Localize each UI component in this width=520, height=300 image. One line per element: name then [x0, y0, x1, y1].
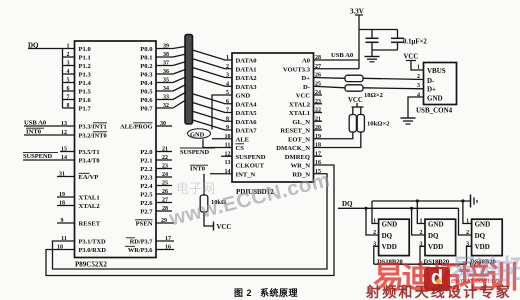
sensor U4 DS18B20 body: [425, 219, 456, 255]
wire D- line: [314, 86, 424, 89]
label 18ohm x2: [364, 92, 384, 99]
svg-text:VBUS: VBUS: [427, 67, 446, 75]
svg-text:P0.0: P0.0: [140, 46, 153, 53]
wire U4 pin3 to VDD rail: [420, 246, 425, 264]
svg-text:25: 25: [162, 181, 168, 187]
svg-text:XTAL2: XTAL2: [79, 203, 101, 210]
svg-text:4: 4: [67, 69, 70, 75]
svg-text:18Ω×2: 18Ω×2: [364, 92, 384, 99]
sensor U3 pin texts: [382, 220, 398, 251]
svg-text:P2.0: P2.0: [140, 149, 153, 156]
svg-text:RESET_N: RESET_N: [280, 128, 310, 135]
U1 pin 17 stub RD: [156, 236, 174, 242]
svg-text:USB_CON4: USB_CON4: [416, 107, 453, 115]
svg-text:P1.5: P1.5: [79, 89, 92, 96]
svg-text:USB A0: USB A0: [331, 52, 354, 59]
U2 pin texts left column: [236, 58, 266, 179]
U2 pin numbers 1-14: [225, 55, 231, 175]
svg-text:22: 22: [162, 155, 168, 161]
svg-text:DATA5: DATA5: [236, 110, 258, 117]
bus bar P0-DATA: [185, 35, 193, 125]
svg-text:P2.3: P2.3: [140, 175, 153, 182]
svg-text:26: 26: [162, 189, 168, 195]
svg-text:37: 37: [163, 61, 169, 67]
resistor R3 label 10k: [211, 199, 226, 206]
wire R5 to DMACK_N: [314, 132, 361, 148]
svg-text:3: 3: [420, 241, 423, 247]
watermark red big text: [373, 252, 516, 297]
wire D+ line: [314, 78, 424, 80]
svg-text:P2.6: P2.6: [140, 200, 153, 207]
svg-text:DATA1: DATA1: [236, 66, 257, 73]
svg-text:P1.2: P1.2: [79, 63, 92, 70]
svg-text:36: 36: [163, 69, 169, 75]
svg-text:4: 4: [226, 81, 229, 87]
U1 pin texts left column: [79, 123, 108, 254]
svg-text:38: 38: [163, 52, 169, 58]
U2 pin numbers 28-15: [315, 55, 321, 175]
svg-text:P89C52X2: P89C52X2: [75, 261, 107, 269]
svg-text:17: 17: [165, 236, 171, 242]
U1 pin 15 stub: [60, 146, 75, 152]
wire U5 pin3 to VDD rail: [467, 246, 472, 264]
svg-text:31: 31: [59, 171, 65, 177]
svg-text:DQ: DQ: [475, 232, 486, 240]
sensor U4 label DS18B20: [424, 258, 450, 265]
wire U2 GND pin5: [212, 95, 232, 130]
capacitor C2 0.1uF: [391, 30, 404, 51]
net label SUSPEND left: [23, 152, 75, 160]
U2 stub XTAL2: [314, 103, 323, 105]
wire VCC to VBUS pin1: [411, 61, 424, 71]
svg-text:P0.6: P0.6: [140, 97, 153, 104]
svg-text:SUSPEND: SUSPEND: [236, 154, 266, 161]
svg-text:VDD: VDD: [428, 243, 443, 251]
svg-text:D-: D-: [427, 77, 435, 85]
svg-text:1: 1: [420, 219, 423, 225]
wire P1 common DQ bus vertical: [62, 49, 64, 109]
watermark blue echo text: [451, 248, 520, 287]
svg-text:P0.5: P0.5: [140, 89, 153, 96]
svg-text:32: 32: [163, 103, 169, 109]
svg-text:P1.0: P1.0: [79, 46, 92, 53]
resistor R1 18ohm body: [345, 75, 363, 81]
svg-text:P1.7: P1.7: [79, 106, 92, 113]
svg-text:INT0: INT0: [190, 166, 206, 173]
label 0.1uF x2: [403, 39, 427, 46]
wire VCC to R4: [352, 107, 354, 115]
svg-text:INT0: INT0: [26, 128, 42, 135]
node GND oval: [188, 129, 211, 139]
svg-text:1: 1: [226, 55, 229, 61]
svg-text:2: 2: [226, 64, 229, 70]
wire INT pull-up: [203, 174, 205, 195]
wire VDD rail: [374, 263, 467, 266]
wire CS pin11 to GND: [203, 139, 232, 147]
svg-text:23: 23: [162, 164, 168, 170]
watermark faint chinese: [176, 178, 215, 197]
svg-text:XTAL1: XTAL1: [289, 110, 310, 117]
sensor U3 DS18B20 body: [379, 219, 410, 255]
svg-text:30: 30: [160, 121, 166, 127]
watermark logo d: [424, 267, 450, 291]
svg-text:VDD: VDD: [382, 243, 397, 251]
wire cap top rail: [359, 29, 398, 31]
svg-text:1: 1: [417, 65, 420, 71]
wire R3 to VCC: [204, 212, 214, 226]
svg-text:8: 8: [226, 116, 229, 122]
U1 pin 31 stub EA: [57, 171, 75, 177]
power VCC tick mid: [214, 222, 232, 232]
svg-text:3.3V: 3.3V: [350, 8, 364, 16]
net label DQ left: [28, 42, 75, 50]
U1 pins 1-8 stubs: [63, 44, 75, 110]
svg-text:DMACK_N: DMACK_N: [276, 145, 310, 152]
svg-text:3: 3: [226, 73, 229, 79]
wire GND rail to U5 pin1: [461, 199, 471, 223]
sensor U5 label DS18B20: [470, 258, 496, 265]
svg-text:5: 5: [67, 78, 70, 84]
svg-text:P1.6: P1.6: [79, 97, 92, 104]
svg-text:P3.5/T1: P3.5/T1: [79, 149, 100, 156]
svg-text:33: 33: [163, 95, 169, 101]
svg-text:8: 8: [67, 103, 70, 109]
J1 pin numbers: [417, 74, 420, 98]
U1 pin texts right column: [120, 46, 153, 254]
svg-text:VCC: VCC: [217, 224, 232, 231]
net label INT0 mid: [190, 165, 232, 174]
wire cap bottom rail: [372, 49, 398, 51]
svg-text:DATA3: DATA3: [236, 84, 258, 91]
svg-text:DQ: DQ: [428, 232, 439, 240]
svg-text:XTAL1: XTAL1: [79, 195, 100, 202]
U2 pin texts right column: [276, 58, 310, 179]
svg-text:11: 11: [61, 236, 67, 242]
svg-text:CS: CS: [236, 145, 245, 152]
svg-text:P0.4: P0.4: [140, 80, 153, 87]
svg-text:P0.2: P0.2: [140, 63, 153, 70]
ground sideways sensors: [471, 195, 478, 208]
power VCC for VBUS: [404, 54, 419, 61]
IC U2 PDIUSBD12 body: [232, 53, 314, 182]
svg-text:EOT_N: EOT_N: [288, 136, 310, 143]
svg-text:9: 9: [226, 125, 229, 131]
svg-text:35: 35: [163, 78, 169, 84]
svg-text:P1.1: P1.1: [79, 55, 91, 62]
svg-text:SUSPEND: SUSPEND: [180, 149, 210, 156]
svg-text:2: 2: [417, 74, 420, 80]
svg-text:3: 3: [67, 61, 70, 67]
J1 pin texts: [427, 67, 446, 102]
svg-text:RESET: RESET: [79, 221, 101, 228]
svg-text:DATA4: DATA4: [236, 101, 258, 108]
svg-text:P2.4: P2.4: [140, 183, 153, 190]
svg-text:GND: GND: [427, 94, 443, 102]
wire GND to ALE pin10: [212, 138, 232, 140]
svg-text:WR/P3.6: WR/P3.6: [128, 247, 153, 254]
U1 pin 19 stub XTAL1: [57, 192, 75, 198]
wire DQ rail to U4 pin2: [410, 207, 425, 235]
U2 stub DMREQ: [314, 155, 323, 157]
connector J1 USB_CON4 body: [424, 63, 457, 105]
svg-text:P3.3/INT1: P3.3/INT1: [79, 124, 107, 131]
bus fan-in wires from P0: [173, 47, 185, 109]
power VCC pullups: [348, 97, 364, 107]
svg-text:10kΩ×2: 10kΩ×2: [367, 121, 390, 128]
sensor U4 pin numbers: [420, 219, 423, 248]
svg-text:GND: GND: [382, 220, 398, 228]
net label INT0 left: [24, 128, 75, 136]
sensor U5 pin texts: [475, 220, 491, 251]
svg-text:SUSPEND: SUSPEND: [23, 153, 53, 160]
svg-text:21: 21: [162, 147, 168, 153]
U1 pin 16 stub WR: [156, 244, 174, 250]
wire U3 pin3 to VDD rail: [374, 246, 379, 264]
svg-text:9: 9: [61, 218, 64, 224]
sensor U3 label DS18B20: [377, 258, 403, 265]
svg-text:2: 2: [466, 230, 469, 236]
wire GND rail to U3 pin1: [372, 201, 379, 224]
svg-text:29: 29: [161, 218, 167, 224]
svg-text:A0: A0: [302, 58, 311, 65]
svg-text:3: 3: [466, 241, 469, 247]
svg-text:1: 1: [466, 219, 469, 225]
svg-text:P2.7: P2.7: [140, 209, 153, 216]
svg-text:10: 10: [57, 244, 63, 250]
svg-text:P2.1: P2.1: [140, 158, 152, 165]
U1 pins 21-28 stubs P2: [156, 147, 172, 213]
svg-text:13: 13: [61, 121, 67, 127]
ground for J1: [401, 118, 416, 124]
svg-text:0.1µF×2: 0.1µF×2: [403, 39, 427, 46]
U1 pin 18 stub XTAL2: [57, 200, 75, 206]
svg-text:39: 39: [163, 44, 169, 50]
watermark maroon slogan: [366, 282, 512, 300]
wire GND rail sensors: [372, 200, 471, 202]
svg-text:P1.4: P1.4: [79, 80, 92, 87]
wire DQ rail to U5 pin2: [459, 208, 472, 235]
svg-text:PSEN: PSEN: [136, 221, 153, 228]
watermark ECCN diagonal: [167, 152, 396, 231]
sensor U3 pin numbers: [373, 219, 376, 248]
svg-text:2: 2: [67, 52, 70, 58]
IC U1 P89C52X2 body: [75, 41, 157, 258]
svg-text:DQ: DQ: [342, 200, 353, 208]
IC U1 label P89C52X2: [75, 261, 107, 269]
svg-text:2: 2: [420, 230, 423, 236]
resistor R5 10k body: [357, 115, 364, 133]
svg-text:CLKOUT: CLKOUT: [236, 163, 265, 170]
svg-text:GND: GND: [190, 132, 205, 139]
svg-text:VCC: VCC: [404, 54, 419, 61]
svg-text:ALE/PROG: ALE/PROG: [120, 124, 153, 131]
power VCC sensors: [469, 262, 484, 269]
svg-text:27: 27: [162, 198, 168, 204]
svg-text:24: 24: [162, 172, 168, 178]
svg-text:DATA7: DATA7: [236, 128, 258, 135]
svg-text:GL_N: GL_N: [292, 119, 310, 126]
net label DQ right: [338, 200, 459, 208]
svg-text:D+: D+: [427, 85, 436, 93]
wire WR_N wrap to RXD: [46, 165, 334, 276]
svg-text:DATA2: DATA2: [236, 75, 258, 82]
svg-text:DATA6: DATA6: [236, 119, 258, 126]
ground for caps: [365, 50, 380, 62]
svg-text:RD/P3.7: RD/P3.7: [130, 239, 154, 246]
resistor R3 10k body: [200, 195, 208, 212]
wire RD_N wrap to TXD: [53, 174, 328, 269]
wire VCC to R5: [360, 107, 362, 115]
svg-text:16: 16: [165, 244, 171, 250]
svg-text:7: 7: [67, 95, 70, 101]
net label USB A0 left: [24, 120, 75, 127]
svg-text:14: 14: [61, 155, 67, 161]
svg-text:XTAL2: XTAL2: [289, 101, 311, 108]
U1 pin 29 stub PSEN: [156, 218, 174, 224]
U2 stub GL_N: [314, 120, 323, 122]
svg-text:GND: GND: [236, 93, 251, 100]
svg-text:3: 3: [417, 83, 420, 89]
U1 pin 9 stub RESET: [57, 218, 75, 224]
power 3.3V label: [350, 8, 364, 16]
resistor R4 10k body: [349, 115, 356, 133]
svg-text:VOUT3.3: VOUT3.3: [283, 66, 311, 73]
svg-text:ALE: ALE: [236, 136, 250, 143]
svg-text:P3.4/T0: P3.4/T0: [79, 158, 100, 165]
svg-text:WR_N: WR_N: [291, 163, 311, 170]
label 10kohm x2: [367, 121, 390, 128]
watermark url: [451, 276, 499, 285]
resistor R2 18ohm body: [345, 85, 363, 91]
svg-text:19: 19: [59, 192, 65, 198]
svg-text:VCC: VCC: [296, 93, 311, 100]
svg-text:P3.2/INT0: P3.2/INT0: [79, 133, 107, 140]
svg-text:D+: D+: [301, 75, 310, 82]
wire VOUT3.3 stub: [314, 68, 360, 70]
svg-text:P2.5: P2.5: [140, 192, 153, 199]
svg-text:VCC: VCC: [348, 97, 363, 104]
sensor U5 DS18B20 body: [472, 219, 503, 255]
svg-text:P0.7: P0.7: [140, 106, 153, 113]
U1 pin texts P1.0-P1.7: [79, 46, 92, 113]
sensor U4 pin texts: [428, 220, 444, 251]
net label SUSPEND mid: [180, 148, 232, 156]
svg-text:D-: D-: [303, 84, 310, 91]
svg-text:15: 15: [61, 146, 67, 152]
svg-text:3: 3: [373, 241, 376, 247]
wire GND rail to U4 pin1: [416, 199, 425, 223]
svg-text:7: 7: [226, 108, 229, 114]
svg-text:P2.2: P2.2: [140, 166, 153, 173]
svg-text:INT_N: INT_N: [236, 171, 256, 178]
J1 label USB_CON4: [416, 107, 453, 115]
svg-text:P0.3: P0.3: [140, 72, 153, 79]
sensor U5 pin numbers: [466, 219, 469, 248]
svg-text:GND: GND: [428, 220, 444, 228]
caption figure title: [234, 286, 298, 299]
svg-text:DQ: DQ: [382, 232, 393, 240]
wire A0 net: [314, 52, 360, 60]
wire DQ rail to U3 pin2: [364, 207, 378, 235]
svg-text:2: 2: [373, 230, 376, 236]
capacitor C1 0.1uF: [366, 30, 379, 51]
svg-text:6: 6: [226, 99, 229, 105]
svg-text:DATA0: DATA0: [236, 58, 258, 65]
wire 3.3V vertical: [355, 15, 363, 69]
svg-text:12: 12: [61, 130, 67, 136]
IC U2 label PDIUSBD12: [236, 188, 274, 196]
svg-text:1: 1: [373, 219, 376, 225]
svg-text:18: 18: [59, 200, 65, 206]
U1 pin 30 stub ALE: [156, 121, 172, 127]
wire R4 to EOT_N: [314, 132, 353, 139]
svg-text:P1.3: P1.3: [79, 72, 92, 79]
svg-text:P3.1/TXD: P3.1/TXD: [79, 239, 107, 246]
svg-text:P0.1: P0.1: [140, 55, 152, 62]
bus fan-out wires to DATA0-7: [193, 50, 233, 130]
U1 pins 39-32 stubs P0: [156, 44, 173, 110]
svg-text:GND: GND: [475, 220, 491, 228]
U2 stub RESET_N: [314, 129, 323, 131]
svg-text:13: 13: [225, 160, 231, 166]
svg-text:6: 6: [67, 86, 70, 92]
svg-text:EA/VP: EA/VP: [79, 174, 99, 181]
svg-text:34: 34: [163, 86, 169, 92]
svg-text:P3.0/RXD: P3.0/RXD: [79, 247, 107, 254]
U2 stub VCC24: [314, 94, 323, 96]
wire J1 GND: [408, 97, 424, 118]
svg-text:DMREQ: DMREQ: [285, 154, 310, 161]
U2 stub XTAL1: [314, 112, 323, 114]
